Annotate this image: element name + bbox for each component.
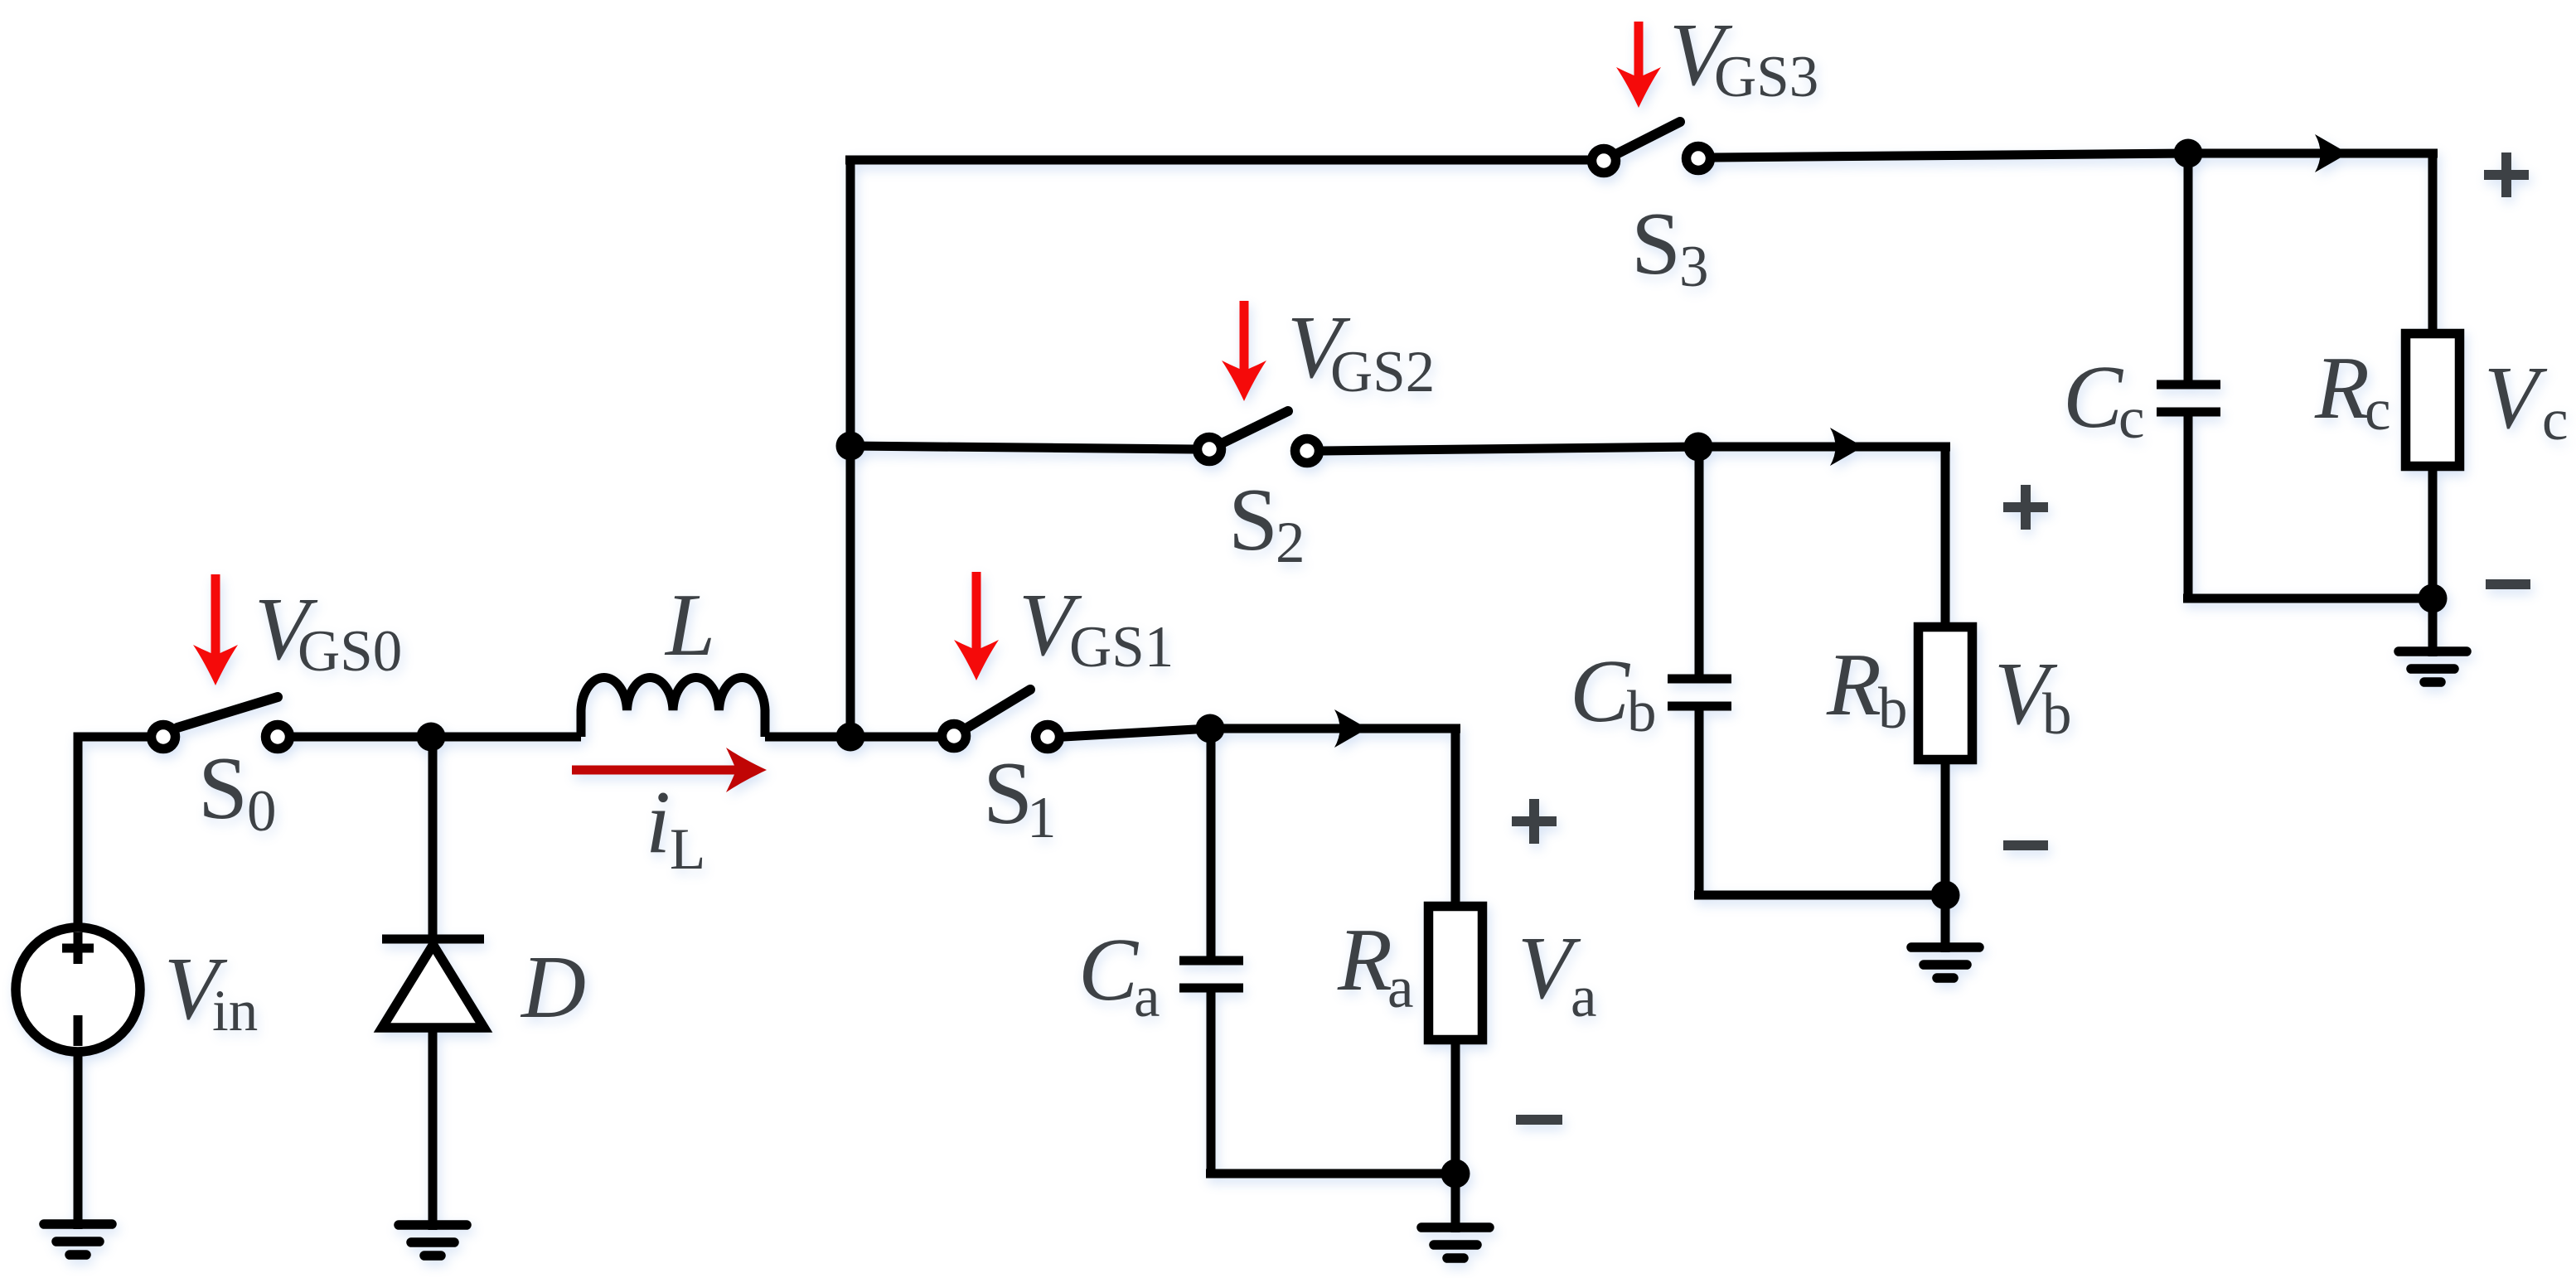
switch S0 right contact [266,725,290,749]
node branch S2 rail [836,432,865,461]
svg-text:C: C [2063,348,2124,447]
node c bottom [2419,584,2448,613]
wire Rc to node [2428,466,2438,598]
diode D triangle [382,945,484,1028]
wire node a to corner [1210,724,1460,733]
wire corner a down to Ra [1451,729,1460,906]
switch S0 left contact [152,725,176,749]
wire branch to S2 [850,446,1194,449]
node c [2174,139,2203,168]
ground (section a) [1421,1227,1489,1258]
node main rail branch [836,723,865,752]
svg-text:L: L [670,817,705,882]
node b bottom [1931,881,1960,910]
resistor Rb [1919,627,1973,760]
svg-text:S: S [983,744,1033,843]
wire Vin to switch S0 [78,737,148,923]
ground (section b) [1911,947,1979,978]
svg-text:C: C [1078,921,1140,1019]
wire node c to corner [2188,149,2438,158]
resistor Ra [1429,907,1483,1040]
wire corner c down to Rc [2428,153,2438,333]
svg-text:S: S [198,739,248,838]
plus sign a [1512,799,1557,844]
switch S2 right contact [1295,439,1319,463]
capacitor Cb plates [1668,679,1731,706]
switch S1 right contact [1036,725,1060,749]
svg-text:a: a [1571,965,1597,1029]
svg-text:0: 0 [247,779,277,844]
switch S2 left contact [1198,438,1222,462]
svg-text:V: V [2484,349,2548,448]
wire Ra to node [1451,1039,1460,1174]
red arrow VGS0 [193,574,238,685]
wire S1 to node a [1063,729,1210,737]
svg-text:c: c [2118,386,2145,451]
svg-text:in: in [212,979,258,1043]
svg-text:a: a [1134,965,1160,1029]
svg-text:b: b [1627,680,1657,744]
wire Rb to node [1941,759,1950,895]
svg-text:b: b [2042,682,2072,747]
svg-text:GS0: GS0 [298,619,402,684]
switch S1 left contact [942,724,966,748]
svg-text:a: a [1387,956,1414,1020]
ground (under Vin) [44,1224,112,1255]
diode D cathode bar [382,935,484,944]
wire b ground stem [1941,895,1950,952]
switch S1 arm [967,690,1030,728]
wire top rail to S3 [845,156,1588,165]
capacitor Ca top wire [1207,729,1216,957]
red arrow VGS3 [1616,22,1661,108]
resistor Rc [2406,334,2460,467]
current arrowhead a [1334,709,1368,748]
current arrowhead c [2315,134,2348,172]
svg-text:R: R [1337,911,1392,1009]
ground (under diode) [399,1225,467,1256]
wire S2 to node b [1323,447,1698,451]
inductor L [581,678,765,737]
red arrow VGS1 [954,572,999,680]
red arrow VGS2 [1222,301,1266,401]
svg-text:R: R [1826,636,1881,734]
svg-text:1: 1 [1027,786,1057,850]
svg-text:2: 2 [1276,511,1305,575]
wire S3 to node c [1714,153,2188,157]
ground (section c) [2399,651,2467,682]
svg-text:b: b [1878,676,1908,741]
svg-text:S: S [1631,195,1681,293]
minus sign c [2486,579,2530,589]
capacitor Ca plates [1179,961,1243,988]
wire inductor to S1 [765,733,938,742]
svg-text:GS1: GS1 [1069,615,1174,680]
svg-text:i: i [646,773,671,872]
svg-text:c: c [2542,388,2569,453]
node diode junction [417,723,446,752]
svg-text:D: D [520,938,586,1037]
node a bottom [1441,1159,1470,1188]
wire b bottom [1694,891,1945,900]
Vin plus sign [62,932,94,964]
capacitor Ca bottom wire [1207,992,1216,1174]
current arrowhead b [1830,428,1863,466]
switch S3 left contact [1592,149,1616,173]
wire corner b down to Rb [1941,447,1950,627]
wire S0 to inductor [293,733,581,742]
red arrow iL [572,748,767,792]
capacitor Cc bottom wire [2184,416,2193,598]
wire a ground stem [1451,1174,1460,1232]
Vin bottom wire [74,1052,83,1229]
svg-text:C: C [1570,642,1631,741]
diode D wire upper [429,737,438,939]
svg-text:3: 3 [1679,235,1709,299]
switch S2 arm [1223,411,1288,443]
plus sign b [2003,485,2048,530]
voltage source Vin circle [16,927,140,1052]
plus sign c [2484,152,2529,197]
wire c ground stem [2428,598,2438,656]
svg-text:L: L [664,576,715,675]
capacitor Cc plates [2157,385,2220,412]
svg-text:c: c [2365,378,2391,443]
minus sign a [1516,1115,1562,1125]
switch S3 arm [1618,122,1680,153]
capacitor Cc top wire [2184,153,2193,381]
wire c bottom [2183,594,2433,603]
svg-text:GS3: GS3 [1714,45,1818,109]
minus sign b [2003,840,2048,850]
node b [1684,433,1713,462]
capacitor Cb bottom wire [1695,710,1704,895]
vertical branch wire [846,160,855,737]
svg-text:R: R [2314,339,2370,438]
wire a bottom [1206,1169,1455,1179]
svg-text:GS2: GS2 [1330,340,1435,404]
node a [1196,714,1225,743]
switch S3 right contact [1687,147,1711,171]
Vin minus bar [74,1015,83,1046]
capacitor Cb top wire [1695,447,1704,675]
diode D wire lower [429,1028,438,1230]
wire node b to corner [1698,443,1950,452]
switch S0 arm [177,697,278,728]
svg-text:S: S [1228,471,1278,569]
